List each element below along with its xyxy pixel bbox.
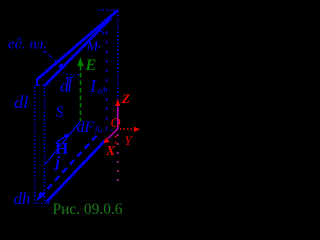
wire: right-front vertical sparse dashed edge [106, 22, 108, 129]
node M dot [98, 46, 100, 48]
wire: dotted horizontal at left end of strip [35, 84, 50, 86]
svg-text:S: S [56, 104, 64, 121]
axis Z (magenta shaft, red arrowhead) [117, 107, 119, 129]
wire: thin force line dF_A [46, 121, 82, 165]
svg-text:M: M [86, 40, 100, 55]
vector E (green arrow) [77, 57, 83, 66]
svg-text:dh: dh [14, 189, 31, 208]
svg-text:Рис. 09.0.6: Рис. 09.0.6 [53, 201, 123, 218]
svg-text:ед: ед [98, 85, 106, 97]
svg-text:I: I [89, 76, 97, 96]
overbar of vector dl [66, 77, 74, 80]
svg-text:O: O [111, 116, 121, 131]
svg-text:е∂. пл.: е∂. пл. [8, 37, 47, 53]
svg-text:dF: dF [77, 119, 95, 136]
svg-text:E: E [85, 57, 97, 74]
wire: right-back vertical dotted edge [117, 11, 119, 128]
wire: dots near origin (hidden edge) [101, 130, 112, 131]
wire: dotted horizontal top right [99, 9, 118, 11]
wire: slab bottom-front edge (solid) [47, 141, 106, 203]
wire: dotted wavy pointer from dl to E base [63, 73, 80, 76]
wire: slab top-back edge (upper solid diagonal) [37, 11, 118, 80]
E line of action (green dashed) [80, 73, 82, 121]
svg-text:Z: Z [121, 91, 130, 106]
wire: left end cap of top strip [36, 79, 38, 86]
wire: dotted horizontal bottom left [34, 202, 50, 204]
arrowhead of dashed edge at dh corner [36, 192, 45, 202]
svg-text:A: A [94, 125, 101, 135]
pointer from label ед. пл. (dashed with arrow) [44, 51, 62, 66]
wire: left-back vertical dotted edge [34, 87, 36, 203]
svg-text:dl: dl [14, 92, 29, 112]
svg-text:X: X [105, 144, 116, 159]
axis X (magenta shaft, red arrowhead) [108, 129, 119, 140]
wire: slab top-front edge (lower solid diagonal) [45, 18, 112, 86]
node M pointer dots [101, 31, 103, 33]
vector H small arrow above label [56, 136, 67, 143]
axis Z negative extra red dots [115, 136, 117, 138]
axis Y (red dotted with arrowhead) [120, 128, 133, 130]
wire: slab bottom-back edge (dashed, current direction) [40, 132, 100, 197]
wire: left-front vertical dotted edge [44, 88, 46, 203]
axis Z negative (magenta dots below origin) [117, 134, 119, 188]
